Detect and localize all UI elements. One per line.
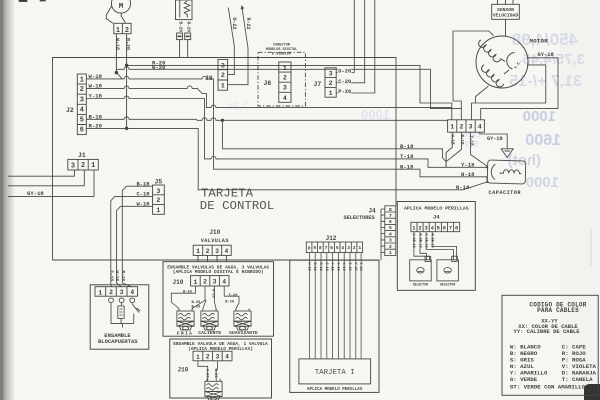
svg-text:1000: 1000 bbox=[523, 108, 556, 125]
wire 1-valve pin1 bbox=[198, 361, 208, 382]
svg-text:1600: 1600 bbox=[525, 132, 561, 149]
svg-text:G-18: G-18 bbox=[335, 263, 339, 271]
wire J5 pin2 C-18 down to door lock bbox=[111, 196, 153, 287]
svg-text:3: 3 bbox=[221, 62, 225, 69]
svg-text:SUAVIZANTE: SUAVIZANTE bbox=[229, 330, 258, 336]
svg-text:Y-20: Y-20 bbox=[229, 294, 238, 298]
svg-text:B-20: B-20 bbox=[225, 300, 234, 304]
connector J10 (valve side, 4-pin) bbox=[191, 276, 229, 286]
selector switch 1 bbox=[410, 256, 432, 281]
svg-text:S-18: S-18 bbox=[423, 240, 427, 248]
wire J2 pin3 Y-18 to capacitor bbox=[86, 96, 487, 167]
svg-text:7: 7 bbox=[389, 213, 392, 219]
wire pump to connector pin2 bbox=[121, 13, 126, 23]
scan left edge band bbox=[0, 0, 3, 400]
svg-text:O-18: O-18 bbox=[324, 263, 328, 271]
svg-text:Y-18: Y-18 bbox=[461, 161, 475, 168]
svg-text:4: 4 bbox=[130, 289, 134, 296]
motor M2 (main motor) bbox=[476, 36, 528, 88]
resistor R1 (door lock) bbox=[121, 302, 123, 306]
scan top edge marks bbox=[19, 0, 28, 2]
svg-text:3: 3 bbox=[347, 245, 350, 251]
connector J8 (3-pin) bbox=[218, 59, 228, 90]
svg-text:Y-18: Y-18 bbox=[330, 263, 334, 271]
svg-text:N-18: N-18 bbox=[417, 240, 421, 248]
svg-text:W-20: W-20 bbox=[205, 369, 209, 378]
svg-text:J4: J4 bbox=[369, 207, 377, 214]
svg-text:R-20: R-20 bbox=[185, 22, 190, 33]
wire motor T.C. to connector pin3 bbox=[472, 65, 546, 120]
capacitor C1 bbox=[487, 160, 526, 184]
svg-text:DE CONTROL: DE CONTROL bbox=[200, 199, 274, 213]
svg-text:GY-18: GY-18 bbox=[487, 136, 503, 142]
svg-text:3: 3 bbox=[424, 225, 427, 231]
connector J7 (3-pin) bbox=[325, 68, 336, 97]
wire knob pin4 to selector 2 bbox=[432, 232, 456, 260]
svg-text:1: 1 bbox=[196, 354, 200, 361]
solenoid valve (1-valve) bbox=[205, 379, 222, 400]
svg-text:W-18: W-18 bbox=[114, 271, 119, 282]
scan fold line bbox=[591, 228, 592, 266]
svg-text:B-18: B-18 bbox=[89, 113, 103, 120]
svg-text:SELECTOR: SELECTOR bbox=[413, 283, 428, 287]
svg-text:1: 1 bbox=[80, 77, 84, 85]
svg-text:1: 1 bbox=[91, 162, 95, 170]
wire J7 pin2 riser bbox=[336, 0, 365, 83]
wire from P1 pin1 (W-18) bbox=[115, 34, 117, 73]
connector J4 (8-pin, vertical) bbox=[381, 206, 396, 260]
wire knob pin3 to selector 2 bbox=[426, 232, 454, 260]
svg-text:B-18: B-18 bbox=[312, 263, 316, 271]
svg-text:2: 2 bbox=[329, 80, 333, 87]
svg-text:J6: J6 bbox=[264, 80, 272, 87]
connector J5 (3-pin) bbox=[153, 185, 165, 214]
svg-text:GY-18: GY-18 bbox=[27, 190, 44, 197]
svg-text:2: 2 bbox=[353, 245, 356, 251]
svg-text:2: 2 bbox=[283, 75, 287, 82]
svg-text:J10: J10 bbox=[178, 367, 189, 374]
selector switch 2 bbox=[437, 256, 459, 281]
svg-text:1000: 1000 bbox=[361, 107, 390, 122]
svg-text:2: 2 bbox=[125, 27, 129, 35]
wire B-18 branch down to capacitor area bbox=[222, 120, 446, 167]
connector J6 (4-pin) bbox=[279, 62, 291, 102]
wire J1 pin2 to left edge bbox=[8, 170, 84, 186]
svg-text:O-20: O-20 bbox=[338, 69, 351, 75]
wire fuse lead right to board edge bbox=[187, 40, 189, 58]
svg-text:2: 2 bbox=[221, 72, 225, 79]
svg-text:4: 4 bbox=[222, 278, 226, 285]
connector J2 (6-pin) bbox=[77, 74, 86, 135]
svg-text:V-24: V-24 bbox=[353, 263, 357, 271]
water valve assembly box (1 valve) bbox=[170, 339, 272, 398]
svg-text:TARJETA I: TARJETA I bbox=[315, 369, 355, 377]
motor connector J3 (4-pin) bbox=[448, 120, 485, 132]
scan bottom-right dark corner bbox=[584, 384, 600, 400]
wire W-20 bus to motor connector pin2 (bump over R-20 riser) bbox=[116, 67, 461, 120]
svg-text:O-22: O-22 bbox=[231, 18, 237, 30]
svg-text:SENSOR: SENSOR bbox=[497, 7, 514, 13]
svg-text:1: 1 bbox=[116, 27, 120, 35]
wire label O-20 bbox=[338, 68, 352, 73]
svg-text:8: 8 bbox=[389, 207, 392, 213]
wire J8 pin2 O-22 riser bbox=[228, 8, 235, 75]
svg-text:3: 3 bbox=[120, 289, 124, 296]
svg-text:2: 2 bbox=[418, 225, 421, 231]
svg-text:R-18: R-18 bbox=[318, 263, 322, 271]
wire valve pin1 to FRIA bbox=[171, 286, 195, 311]
svg-text:MOTOR: MOTOR bbox=[530, 37, 549, 44]
wire pin2 down bbox=[446, 132, 461, 162]
svg-text:0: 0 bbox=[308, 245, 311, 251]
wire pin3 to capacitor bbox=[471, 132, 487, 166]
svg-text:1: 1 bbox=[196, 248, 200, 255]
wire pump to connector pin1 bbox=[106, 6, 113, 24]
svg-text:GY-18: GY-18 bbox=[538, 52, 554, 58]
svg-text:SELECTORES: SELECTORES bbox=[344, 215, 375, 221]
color code legend box bbox=[502, 295, 598, 395]
fuse terminal blocks bbox=[177, 33, 183, 40]
svg-text:2: 2 bbox=[81, 162, 85, 170]
svg-text:1: 1 bbox=[412, 226, 415, 232]
svg-text:J4: J4 bbox=[433, 214, 440, 221]
wire J2 pin5 B-18 long bus bbox=[86, 117, 447, 121]
motor M1 (drain pump, top-left, clipped by page top) bbox=[111, 0, 130, 13]
node junction B-18 branch bbox=[221, 119, 223, 121]
svg-text:2: 2 bbox=[109, 289, 113, 296]
svg-text:1: 1 bbox=[156, 207, 160, 214]
svg-text:6: 6 bbox=[80, 127, 84, 135]
dashed enclosure (digital/hybrid connector) bbox=[258, 52, 305, 106]
svg-text:B-20: B-20 bbox=[177, 22, 182, 33]
wire label C-20 bbox=[338, 78, 352, 83]
svg-text:6: 6 bbox=[330, 245, 333, 251]
svg-text:B-18: B-18 bbox=[137, 181, 150, 187]
svg-text:3: 3 bbox=[71, 162, 75, 170]
wire valve pin2 to FRIA / CALIENTE bbox=[192, 286, 206, 311]
wire J2 pin2 W-18 bbox=[86, 86, 452, 108]
svg-text:CAPACITOR: CAPACITOR bbox=[489, 190, 522, 196]
connector J12 (10-pin) bbox=[306, 242, 362, 253]
thermal fuse F1 (top, with resistor zigzag) bbox=[176, 0, 193, 58]
svg-text:W-18: W-18 bbox=[89, 83, 103, 90]
svg-text:W-18: W-18 bbox=[137, 202, 150, 208]
svg-text:6: 6 bbox=[443, 225, 446, 231]
junction node at capacitor input bbox=[486, 166, 488, 168]
svg-text:2: 2 bbox=[80, 86, 84, 94]
svg-text:B-20: B-20 bbox=[192, 306, 201, 310]
svg-text:3: 3 bbox=[469, 123, 473, 130]
svg-text:5: 5 bbox=[437, 225, 440, 231]
svg-text:J.2e: J.2e bbox=[226, 99, 250, 113]
wire pin1 down to junction bbox=[446, 132, 452, 167]
svg-text:8: 8 bbox=[455, 225, 458, 231]
svg-text:J5: J5 bbox=[155, 179, 163, 186]
node junction on W-18 riser bbox=[115, 71, 118, 74]
svg-text:2: 2 bbox=[206, 248, 210, 255]
wire R-20 bus to motor connector pin1 bbox=[127, 65, 452, 119]
svg-text:2: 2 bbox=[206, 353, 210, 360]
svg-text:E HIBRIDO: E HIBRIDO bbox=[272, 52, 291, 56]
svg-text:3: 3 bbox=[156, 188, 160, 195]
svg-text:VELOCIDAD: VELOCIDAD bbox=[493, 13, 519, 19]
connector J10 (1-valve, 4-pin) bbox=[193, 351, 232, 361]
wire motor lower winding tap bbox=[476, 86, 489, 103]
svg-text:B-18: B-18 bbox=[120, 271, 125, 282]
wire J7 pin1 riser bbox=[336, 0, 375, 93]
svg-text:T: CANELA: T: CANELA bbox=[562, 376, 593, 383]
svg-text:SELECTOR: SELECTOR bbox=[440, 283, 455, 287]
svg-text:B-20: B-20 bbox=[192, 301, 201, 305]
wire valve pin3 to CALIENTE bbox=[215, 286, 217, 311]
svg-text:3: 3 bbox=[389, 238, 392, 244]
wire 1-valve pin3 bbox=[216, 361, 217, 382]
svg-text:B-20: B-20 bbox=[183, 290, 192, 294]
junction node at capacitor bottom bbox=[486, 181, 488, 183]
svg-text:3,75/4,45: 3,75/4,45 bbox=[522, 51, 585, 68]
svg-text:1: 1 bbox=[193, 279, 197, 286]
svg-text:3: 3 bbox=[283, 85, 287, 92]
svg-text:6: 6 bbox=[389, 219, 392, 225]
svg-text:W-20: W-20 bbox=[211, 289, 215, 298]
wire knob pin1 to selector 1 bbox=[414, 232, 430, 260]
wire J2 pin1 W-18 bbox=[86, 73, 487, 182]
svg-text:R-20: R-20 bbox=[124, 38, 130, 50]
tarjeta I outer box bbox=[290, 260, 379, 392]
svg-text:R-22: R-22 bbox=[245, 18, 251, 30]
svg-text:W-18: W-18 bbox=[450, 135, 454, 146]
solenoid valve CALIENTE bbox=[201, 309, 218, 331]
svg-text:5: 5 bbox=[336, 245, 339, 251]
svg-text:APLICA MODELO PERILLAS: APLICA MODELO PERILLAS bbox=[307, 388, 363, 392]
wire pin4 GY-18 to ground bbox=[480, 132, 507, 149]
svg-text:4: 4 bbox=[224, 248, 228, 255]
wire J1 pin3 to left edge bbox=[8, 170, 75, 176]
svg-text:8: 8 bbox=[319, 245, 322, 251]
svg-text:(APLICA MODELO DIGITAL E HIBRI: (APLICA MODELO DIGITAL E HIBRIDO) bbox=[173, 269, 264, 275]
svg-text:J1: J1 bbox=[78, 152, 86, 159]
svg-text:C-18: C-18 bbox=[108, 271, 113, 282]
svg-text:3: 3 bbox=[215, 353, 219, 360]
svg-text:Y-18: Y-18 bbox=[89, 93, 103, 100]
svg-text:B-18: B-18 bbox=[400, 143, 414, 150]
svg-text:J10: J10 bbox=[209, 229, 220, 236]
wire label P-20 bbox=[338, 88, 352, 93]
wires J12 to tarjeta I (10) bbox=[309, 253, 361, 359]
svg-text:C-18: C-18 bbox=[137, 192, 150, 198]
svg-text:3: 3 bbox=[329, 71, 333, 78]
solenoid valve FRIA bbox=[177, 309, 194, 331]
svg-text:BLOCAPUERTAS: BLOCAPUERTAS bbox=[98, 338, 138, 345]
knob model box (aplica modelo perillas) bbox=[397, 202, 475, 291]
svg-text:APLICA MODELO PERILLAS: APLICA MODELO PERILLAS bbox=[404, 206, 469, 212]
svg-text:1: 1 bbox=[389, 250, 392, 256]
svg-text:4: 4 bbox=[478, 123, 482, 130]
ground symbol bbox=[501, 149, 514, 158]
svg-text:1: 1 bbox=[358, 245, 361, 251]
svg-text:3: 3 bbox=[215, 248, 219, 255]
connector (door lock, 4-pin) bbox=[95, 287, 138, 297]
svg-text:3: 3 bbox=[80, 96, 84, 104]
wire motor upper winding to connector pin2 bbox=[453, 31, 494, 109]
wire J8 pin1 R-22 riser with arrow bbox=[228, 6, 248, 85]
door lock internals bbox=[109, 298, 140, 328]
svg-text:M: M bbox=[119, 3, 124, 11]
svg-text:9: 9 bbox=[313, 245, 316, 251]
svg-text:5: 5 bbox=[80, 117, 84, 125]
legend color list bbox=[510, 343, 597, 383]
svg-text:1: 1 bbox=[221, 83, 225, 90]
svg-text:J12: J12 bbox=[326, 235, 337, 242]
wire J5 pin1 W-18 down to door lock bbox=[117, 206, 153, 287]
svg-text:P-20: P-20 bbox=[338, 89, 351, 95]
svg-text:4: 4 bbox=[80, 106, 84, 114]
svg-text:1000: 1000 bbox=[526, 174, 559, 191]
svg-text:YY: CALIBRE DE CABLE: YY: CALIBRE DE CABLE bbox=[513, 328, 580, 335]
svg-text:C-20: C-20 bbox=[338, 79, 351, 85]
svg-text:PARA CABLES: PARA CABLES bbox=[537, 307, 579, 314]
connector J10 (board side, 4-pin) bbox=[193, 245, 231, 262]
door lock assembly (blocapuertas) bbox=[90, 285, 149, 349]
node junction on R-20 riser bbox=[125, 64, 128, 67]
wire J1 pin1 GY-18 to left edge bbox=[8, 170, 94, 197]
svg-text:W-18: W-18 bbox=[114, 38, 120, 50]
wire sensor to motor bbox=[505, 19, 507, 36]
wire from P1 pin2 (R-20) bbox=[126, 34, 128, 129]
svg-text:4: 4 bbox=[225, 353, 229, 360]
svg-text:VALVULAS: VALVULAS bbox=[201, 238, 229, 244]
connector J1 (3-pin) bbox=[68, 159, 99, 170]
svg-text:T-18: T-18 bbox=[400, 153, 414, 160]
svg-text:7: 7 bbox=[325, 245, 328, 251]
water valve assembly box (3 valves) bbox=[163, 262, 274, 337]
svg-text:N-18: N-18 bbox=[400, 163, 414, 170]
node junction pump R-20 into J2 pin6 bbox=[125, 127, 128, 130]
stator winding lower bbox=[482, 65, 504, 87]
connector P1 (2-pin) bbox=[114, 23, 131, 33]
svg-text:N-18: N-18 bbox=[461, 171, 475, 178]
svg-text:4: 4 bbox=[389, 231, 392, 237]
switch S1 (door lock) bbox=[132, 302, 140, 312]
wire labels under J12 bbox=[306, 263, 362, 271]
svg-text:G-18: G-18 bbox=[411, 240, 415, 248]
wire J7 pin3 riser bbox=[336, 0, 354, 73]
svg-text:N-18: N-18 bbox=[341, 263, 345, 271]
svg-text:4: 4 bbox=[341, 245, 344, 251]
wire J4 bus bbox=[381, 209, 385, 260]
wire motor GY-18 to connector pin4 bbox=[481, 58, 558, 120]
wire J2 pin6 R-20 down to capacitor return bbox=[86, 128, 487, 189]
svg-text:S-24: S-24 bbox=[347, 263, 351, 271]
wire labels under knob J4 bbox=[411, 234, 433, 248]
svg-text:R-20: R-20 bbox=[89, 123, 103, 130]
control board outline (TARJETA DE CONTROL) bbox=[53, 58, 397, 261]
bleed-through text (back of page, mirrored) bbox=[226, 30, 585, 191]
stator winding upper bbox=[479, 40, 501, 62]
svg-text:J8: J8 bbox=[205, 75, 213, 82]
svg-text:T-24: T-24 bbox=[358, 263, 362, 271]
svg-text:G: VERDE: G: VERDE bbox=[510, 376, 538, 383]
svg-text:N-18: N-18 bbox=[456, 184, 470, 191]
wire knob pin2 to selector 1 bbox=[420, 232, 426, 260]
svg-text:B-20: B-20 bbox=[213, 369, 217, 378]
svg-text:W-18: W-18 bbox=[89, 73, 103, 80]
svg-text:5: 5 bbox=[389, 225, 392, 231]
svg-text:FRIA: FRIA bbox=[177, 330, 193, 336]
svg-text:1: 1 bbox=[450, 124, 454, 131]
connector J4 (knob box, 8-pin) bbox=[411, 222, 460, 231]
svg-text:7: 7 bbox=[449, 225, 452, 231]
svg-text:CALIENTE: CALIENTE bbox=[198, 330, 221, 336]
thermal cutoff T.C. arc bbox=[507, 53, 515, 70]
solenoid valve SUAVIZANTE bbox=[234, 309, 251, 331]
svg-text:2: 2 bbox=[156, 197, 160, 204]
svg-text:1: 1 bbox=[98, 289, 102, 296]
svg-text:W-18: W-18 bbox=[306, 263, 310, 271]
svg-text:1: 1 bbox=[329, 90, 333, 97]
wire J5 pin3 B-18 down to door lock bbox=[122, 186, 152, 287]
svg-text:MODELOS DIGITAL: MODELOS DIGITAL bbox=[266, 48, 298, 52]
svg-text:1: 1 bbox=[283, 65, 287, 72]
svg-text:2: 2 bbox=[389, 244, 392, 250]
svg-text:2: 2 bbox=[459, 123, 463, 130]
sensor velocidad (speed sensor) bbox=[492, 0, 520, 36]
wire valve pin4 to SUAVIZANTE bbox=[224, 286, 239, 311]
wire fuse lead left to board edge bbox=[179, 40, 181, 58]
svg-text:W-20: W-20 bbox=[152, 64, 166, 71]
svg-text:CONECTOR: CONECTOR bbox=[273, 44, 291, 48]
svg-text:4: 4 bbox=[283, 95, 287, 102]
svg-text:J10: J10 bbox=[173, 279, 184, 286]
svg-text:J7: J7 bbox=[314, 81, 322, 88]
tarjeta I inner box bbox=[299, 359, 371, 384]
svg-text:3: 3 bbox=[213, 278, 217, 285]
svg-text:GT: VERDE CON AMARILLO: GT: VERDE CON AMARILLO bbox=[510, 383, 586, 390]
svg-text:J2: J2 bbox=[66, 107, 74, 114]
svg-text:2: 2 bbox=[203, 278, 207, 285]
